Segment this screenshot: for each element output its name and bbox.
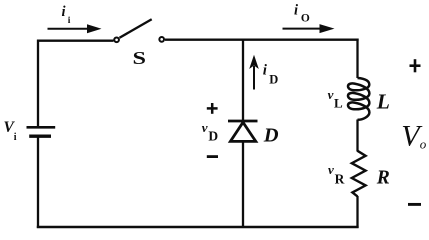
minus sign (v_D) bbox=[207, 155, 218, 158]
svg-text:O: O bbox=[301, 12, 310, 24]
battery Vi bbox=[27, 127, 56, 136]
wire right vertical: inductor to resistor bbox=[356, 120, 358, 152]
svg-text:D: D bbox=[269, 73, 278, 87]
svg-text:i: i bbox=[294, 3, 298, 19]
svg-text:v: v bbox=[328, 87, 334, 102]
minus sign (output V_o) bbox=[408, 203, 421, 206]
svg-text:R: R bbox=[335, 171, 345, 186]
label v_R bbox=[328, 162, 345, 187]
label v_L bbox=[328, 87, 343, 111]
label Vi bbox=[4, 119, 17, 143]
label i_O bbox=[294, 3, 310, 25]
wire middle branch lower (diode anode to bottom) bbox=[242, 142, 244, 228]
label i_D bbox=[263, 63, 278, 87]
wire left vertical upper bbox=[37, 40, 39, 127]
wire right vertical: top to inductor bbox=[356, 39, 358, 79]
label V_o bbox=[401, 119, 427, 152]
switch S bbox=[114, 19, 164, 42]
wire top-left horizontal bbox=[37, 40, 114, 42]
wire middle branch upper (node to diode cathode) bbox=[242, 39, 244, 120]
label i_i bbox=[62, 4, 71, 26]
svg-text:D: D bbox=[263, 125, 279, 147]
label v_D bbox=[202, 120, 219, 143]
wire top-right horizontal bbox=[165, 39, 359, 41]
svg-text:R: R bbox=[376, 167, 390, 188]
plus sign (v_D) bbox=[207, 103, 218, 114]
svg-text:D: D bbox=[208, 129, 218, 144]
svg-text:o: o bbox=[420, 137, 427, 152]
svg-text:i: i bbox=[68, 16, 71, 26]
wire left vertical lower bbox=[37, 136, 39, 228]
resistor R zigzag bbox=[352, 151, 366, 197]
svg-text:L: L bbox=[334, 96, 343, 111]
svg-text:v: v bbox=[202, 120, 208, 135]
current arrow i_i bbox=[48, 24, 102, 33]
svg-text:S: S bbox=[133, 48, 147, 68]
plus sign (output V_o) bbox=[410, 59, 421, 72]
svg-text:i: i bbox=[14, 132, 17, 143]
diode D bbox=[228, 121, 258, 141]
current arrow i_D bbox=[249, 55, 259, 90]
current arrow i_O bbox=[283, 24, 335, 33]
inductor L coil bbox=[348, 78, 369, 120]
svg-text:L: L bbox=[376, 90, 390, 114]
svg-text:v: v bbox=[328, 162, 334, 177]
wire bottom horizontal bbox=[37, 226, 359, 229]
svg-text:i: i bbox=[62, 4, 66, 20]
wire right vertical: resistor to bottom bbox=[356, 196, 358, 228]
